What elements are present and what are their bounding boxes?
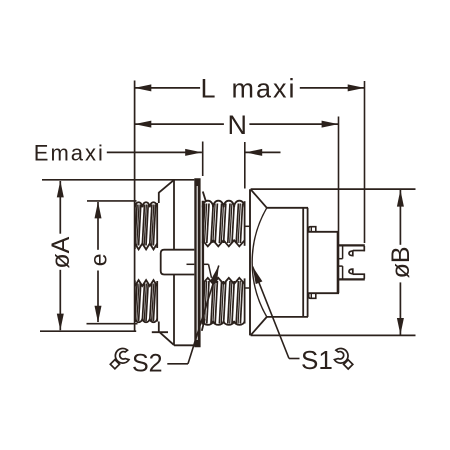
front key slot bar <box>161 250 195 275</box>
bell keyway middle line <box>187 263 195 265</box>
rear body bottom tab <box>309 293 316 298</box>
extension line L right <box>364 81 366 243</box>
rear body top tab <box>309 227 316 232</box>
svg-text:e: e <box>86 253 112 266</box>
bell rear face upper <box>173 180 175 250</box>
wrench icon S1 <box>334 348 352 369</box>
leader S1 <box>253 267 300 359</box>
bell rear face lower <box>173 275 175 346</box>
extension line nut front (E maxi right) <box>244 142 246 189</box>
bell bottom flat <box>174 344 194 346</box>
rear body outline <box>308 232 339 293</box>
bell cone bottom chamfer <box>160 333 174 346</box>
nut flat top edge <box>267 207 308 209</box>
dimension N <box>135 110 339 140</box>
nut top chamfer <box>251 189 267 208</box>
nut flat bottom edge <box>267 316 308 318</box>
wrench icon S2 <box>110 348 129 368</box>
bell front face bottom stub <box>158 322 160 333</box>
dimension e <box>86 201 138 324</box>
front threaded section lower band <box>135 280 157 322</box>
rear thread lead-in chamfer top <box>203 192 206 201</box>
svg-text:N: N <box>227 110 247 140</box>
rear threaded section upper band <box>203 201 245 247</box>
svg-text:S1: S1 <box>301 345 333 375</box>
front threaded section upper band <box>135 202 157 249</box>
dimension phi-B <box>251 189 416 335</box>
leader S2 <box>167 266 219 364</box>
lower solder cup <box>339 266 365 279</box>
bell front face top stub <box>158 192 160 203</box>
extension line flange back (E maxi left) <box>202 142 204 177</box>
bell bottom front flat <box>152 331 168 333</box>
bell cone top chamfer <box>159 180 174 193</box>
rear threaded section lower band <box>203 278 245 325</box>
nut bottom chamfer <box>251 317 267 335</box>
rear threaded section root line <box>202 201 204 325</box>
extension line front face <box>134 81 136 332</box>
dimension phi-A <box>40 180 194 331</box>
svg-text:Emaxi: Emaxi <box>34 141 105 166</box>
rear keyway slot lines <box>203 263 209 265</box>
flange (dark) <box>194 178 200 347</box>
svg-text:øB: øB <box>387 246 415 278</box>
gap ticks before nut <box>245 225 250 227</box>
rear thread lead-in chamfer bottom <box>202 319 205 331</box>
svg-text:S2: S2 <box>132 350 163 378</box>
svg-text:L: L <box>200 74 215 104</box>
upper solder cup <box>339 245 365 258</box>
svg-text:øA: øA <box>47 236 75 268</box>
nut back ring edge <box>307 208 309 317</box>
dimension E maxi <box>34 141 281 166</box>
svg-text:maxi: maxi <box>231 74 296 104</box>
nut cone silhouette arc <box>252 208 267 317</box>
nut back face <box>302 208 304 317</box>
dimension L maxi <box>135 74 365 104</box>
nut S1 front face <box>249 189 251 335</box>
extension line N right <box>338 117 340 232</box>
